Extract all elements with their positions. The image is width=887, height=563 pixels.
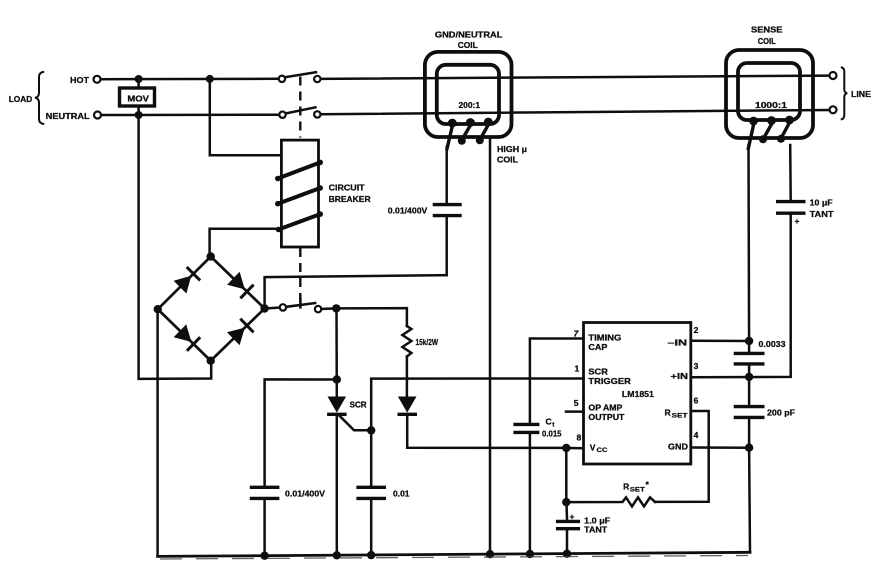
- node junction pin 3: [745, 373, 753, 381]
- transformer T2 secondary winding: [748, 116, 794, 150]
- svg-text:BREAKER: BREAKER: [329, 194, 371, 204]
- capacitor C5 200pF: [734, 377, 795, 448]
- svg-text:SENSE: SENSE: [751, 25, 783, 35]
- svg-text:0.015: 0.015: [542, 430, 562, 439]
- svg-text:LINE: LINE: [851, 90, 872, 99]
- wire resistor to diode: [406, 357, 409, 397]
- node rail junction T1 wire: [486, 550, 494, 558]
- svg-text:SCR: SCR: [350, 400, 367, 410]
- diode bridge D2 top-right: [227, 272, 254, 299]
- svg-text:HIGH μ: HIGH μ: [497, 144, 527, 154]
- capacitor C6 1.0uF TANT: [556, 502, 610, 554]
- wire IC pin 3 run to T2 right winding: [691, 215, 791, 377]
- circuit breaker box: [281, 140, 370, 247]
- label GND/NEUTRAL COIL: [435, 30, 503, 50]
- wire hot junction down to breaker: [210, 79, 282, 155]
- node bridge top corner: [207, 252, 215, 260]
- svg-text:+IN: +IN: [671, 371, 689, 381]
- wire switch output to resistor: [336, 308, 407, 326]
- label LINE with brace: [841, 67, 872, 119]
- wire snubber cap run to SCR anode: [265, 379, 337, 486]
- svg-text:10 μF: 10 μF: [810, 198, 833, 207]
- svg-text:7: 7: [574, 329, 580, 339]
- thyristor SCR Q1: [327, 397, 368, 431]
- svg-text:5: 5: [574, 398, 579, 408]
- node junction SCR anode snubber: [333, 375, 341, 383]
- node LINE neutral terminal: [830, 106, 837, 113]
- wire VCC junction down: [565, 448, 568, 502]
- circuit breaker solenoid winding: [275, 160, 323, 233]
- pin 5 number: [574, 398, 579, 408]
- wire SCR cathode to rail: [336, 414, 339, 555]
- capacitor C1 0.01/400V upper: [388, 147, 462, 275]
- ground rail: [158, 552, 750, 556]
- capacitor C7 10uF TANT: [776, 145, 834, 226]
- wire NEUTRAL line right segment: [321, 110, 830, 114]
- node junction switch output: [332, 304, 340, 312]
- svg-text:TRIGGER: TRIGGER: [588, 376, 631, 386]
- op-amp U1 LM1851 box: [584, 323, 691, 465]
- resistor RSET external and pin 6 wire: [566, 411, 708, 506]
- node junction neutral-MOV: [135, 111, 143, 119]
- svg-text:COIL: COIL: [497, 154, 518, 164]
- svg-text:R: R: [623, 481, 629, 491]
- node rail junction C2: [260, 552, 268, 560]
- node rail junction SCR cathode: [333, 551, 341, 559]
- wire dashed breaker linkage upper: [299, 77, 301, 138]
- pin 4 number: [694, 430, 699, 440]
- svg-text:0.0033: 0.0033: [759, 340, 787, 349]
- svg-text:GND: GND: [668, 442, 688, 452]
- svg-text:3: 3: [694, 361, 699, 371]
- node bridge bottom corner: [207, 357, 215, 365]
- wire pin 4 node down to rail: [748, 448, 751, 553]
- transformer T2 SENSE coil core: [726, 50, 813, 138]
- node junction pin 4 GND: [745, 444, 753, 452]
- wire HOT line left segment: [101, 78, 279, 81]
- capacitor C4 0.0033: [734, 340, 786, 377]
- svg-text:200 pF: 200 pF: [767, 408, 795, 417]
- node junction VCC RSET: [562, 498, 570, 506]
- wire SCR anode from switch node: [335, 308, 338, 396]
- svg-text:COIL: COIL: [758, 36, 776, 46]
- capacitor Ct 0.015 timing: [513, 339, 583, 555]
- varistor MOV: [120, 79, 155, 115]
- pin 6 number: [694, 396, 699, 406]
- svg-text:0.01/400V: 0.01/400V: [388, 206, 428, 215]
- node rail junction Ct: [526, 550, 534, 558]
- capacitor C3 0.01 gate: [356, 430, 410, 555]
- svg-text:200:1: 200:1: [459, 101, 481, 110]
- switch S1a contacts on HOT: [279, 72, 321, 82]
- node junction SCR gate: [367, 426, 375, 434]
- svg-text:SET: SET: [630, 487, 645, 494]
- svg-text:C: C: [546, 416, 552, 426]
- svg-text:LOAD: LOAD: [9, 94, 33, 104]
- svg-text:R: R: [665, 408, 671, 418]
- pin 5 stub: [566, 410, 584, 413]
- node LINE hot terminal: [830, 72, 837, 79]
- svg-text:TANT: TANT: [810, 210, 834, 219]
- svg-text:OUTPUT: OUTPUT: [588, 412, 625, 422]
- svg-text:NEUTRAL: NEUTRAL: [46, 111, 90, 121]
- svg-text:LM1851: LM1851: [622, 390, 655, 399]
- svg-text:2: 2: [694, 325, 699, 335]
- transformer T1 secondary winding: [447, 118, 493, 150]
- capacitor C2 0.01/400V snubber: [250, 487, 326, 555]
- pin 8 number: [577, 433, 582, 443]
- svg-text:+: +: [570, 512, 575, 522]
- wire dashed breaker linkage lower: [299, 248, 301, 303]
- svg-text:1: 1: [575, 364, 580, 374]
- label HIGH u COIL: [497, 144, 527, 165]
- node junction hot-breaker feed: [206, 75, 214, 83]
- pin 3 number: [694, 361, 699, 371]
- diode bridge D3 bottom-left: [174, 324, 201, 350]
- svg-text:SET: SET: [672, 413, 688, 420]
- node junction VCC: [562, 444, 570, 452]
- svg-text:4: 4: [694, 430, 699, 440]
- label NEUTRAL: [46, 111, 90, 121]
- wire NEUTRAL line left segment: [101, 113, 279, 116]
- svg-text:MOV: MOV: [127, 93, 149, 103]
- svg-text:6: 6: [694, 396, 699, 406]
- node bridge left corner: [154, 305, 162, 313]
- svg-text:t: t: [552, 422, 555, 429]
- wire breaker to bridge top: [210, 229, 282, 257]
- svg-text:0.01: 0.01: [393, 490, 410, 499]
- svg-text:+: +: [795, 216, 800, 226]
- pin 1 number: [575, 364, 580, 374]
- wire IC pin 2 stub: [691, 340, 749, 343]
- wire VCC junction to IC pin 8: [566, 447, 583, 450]
- switch S1c contacts on bridge output: [265, 299, 337, 313]
- node junction hot-MOV: [135, 75, 143, 83]
- wire neutral drop to bridge bottom: [139, 115, 212, 379]
- diode D5 series: [398, 397, 418, 415]
- node bridge right corner: [260, 304, 268, 312]
- node HOT load terminal: [94, 76, 101, 83]
- svg-text:0.01/400V: 0.01/400V: [285, 490, 326, 499]
- wire IC pin 4 stub: [691, 446, 749, 449]
- node rail junction C3: [367, 551, 375, 559]
- label HOT: [70, 75, 90, 85]
- svg-text:TANT: TANT: [584, 525, 607, 534]
- svg-text:HOT: HOT: [70, 75, 90, 85]
- svg-text:COIL: COIL: [458, 40, 478, 50]
- wire IC pin 1 trigger to gate: [371, 379, 583, 431]
- wire T1 right winding to ground rail: [489, 138, 492, 554]
- pin 2 number: [694, 325, 699, 335]
- wire diode to VCC line: [407, 414, 564, 448]
- svg-text:V: V: [590, 442, 596, 452]
- label SENSE COIL: [751, 25, 783, 46]
- label LOAD with brace: [9, 72, 45, 124]
- svg-text:CIRCUIT: CIRCUIT: [329, 182, 366, 192]
- node junction pin 2: [745, 337, 753, 345]
- switch S1b contacts on NEUTRAL: [279, 107, 320, 118]
- svg-text:1000:1: 1000:1: [755, 101, 788, 110]
- node NEUTRAL load terminal: [94, 112, 101, 119]
- wire bridge right corner to snubber run: [265, 275, 447, 308]
- bridge rectifier edges: [158, 257, 265, 361]
- svg-text:–IN: –IN: [668, 337, 688, 347]
- pin 7 number: [574, 329, 580, 339]
- svg-text:GND/NEUTRAL: GND/NEUTRAL: [435, 30, 503, 40]
- diode bridge D1 top-left: [174, 267, 201, 294]
- svg-text:TIMING: TIMING: [588, 332, 621, 342]
- svg-text:CAP: CAP: [588, 342, 607, 352]
- node rail junction C6: [563, 550, 571, 558]
- bottom scan artifact fuzz under rail: [160, 556, 748, 560]
- svg-text:8: 8: [577, 433, 582, 443]
- wire HOT line right segment: [321, 76, 830, 79]
- svg-text:15k/2W: 15k/2W: [416, 338, 439, 347]
- svg-text:*: *: [646, 480, 650, 490]
- transformer T1 GND/NEUTRAL coil core: [425, 52, 512, 137]
- wire T2 left winding down to pin 2 node: [747, 145, 750, 352]
- wire bridge left corner to ground rail: [156, 309, 159, 556]
- svg-text:1.0 μF: 1.0 μF: [584, 516, 610, 525]
- svg-text:CC: CC: [597, 447, 608, 454]
- resistor R1 15k/2W: [402, 326, 438, 357]
- diode bridge D4 bottom-right: [227, 319, 254, 346]
